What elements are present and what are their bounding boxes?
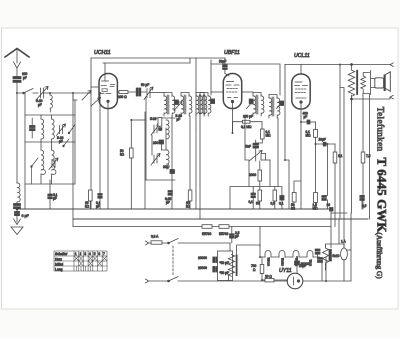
svg-text:10000: 10000 — [198, 266, 207, 270]
wire heater bus — [232, 227, 260, 248]
IF transformer T1 coil b — [172, 96, 175, 113]
wires IF bottoms — [164, 113, 204, 116]
wire speaker bottom — [352, 97, 391, 99]
wire bottom right — [350, 213, 352, 281]
resistor 0,1M UCL — [314, 130, 318, 138]
coil L2b — [52, 150, 56, 174]
svg-text:Schalter: Schalter — [55, 252, 68, 256]
tube UCL11 — [292, 74, 310, 109]
grid arrow UCH — [91, 98, 101, 107]
IF transformer T2 coil a — [181, 96, 184, 113]
IF transformer T5 core — [256, 95, 258, 114]
fuse oval — [341, 248, 348, 260]
osc trimmer — [151, 124, 160, 136]
wire antenna lead — [16, 68, 18, 76]
wire — [99, 93, 101, 196]
heater UCH11 — [265, 251, 271, 258]
svg-text:3: 3 — [84, 252, 86, 256]
osc coil b — [166, 150, 169, 169]
wire antenna to switch — [17, 83, 23, 94]
capacitor 0,5uF right — [360, 196, 365, 201]
switch link — [172, 246, 174, 276]
capacitor 200 — [159, 140, 164, 144]
resistor 1,5M — [314, 193, 318, 203]
wire filter out — [73, 93, 77, 100]
resistor 0,1M vertical — [261, 129, 265, 139]
switch S2 — [32, 158, 39, 167]
capacitor 0,05uF — [168, 191, 172, 196]
trimmer 5-30pF — [57, 124, 66, 136]
switch mains a — [169, 239, 179, 244]
IF transformer T2 coil b — [189, 96, 192, 113]
lamp UY11 — [287, 273, 303, 289]
wire — [178, 280, 303, 282]
IF transformer T5 coil a — [253, 96, 256, 113]
wire T4 — [200, 60, 211, 116]
svg-text:μF: μF — [96, 205, 100, 209]
resistor 0,2M horizontal — [243, 120, 251, 123]
svg-text:5-20: 5-20 — [150, 117, 157, 121]
svg-text:(Ausführung G): (Ausführung G) — [375, 233, 383, 280]
switch mains b — [169, 277, 179, 282]
resistor 20 — [265, 279, 274, 282]
trimmer C2 — [49, 158, 58, 170]
svg-text:UBF11: UBF11 — [224, 50, 240, 56]
svg-text:0,1: 0,1 — [279, 202, 284, 206]
svg-text:*50 μF: *50 μF — [220, 261, 230, 265]
svg-text:UCH11: UCH11 — [94, 50, 111, 56]
heater chain wire — [259, 245, 261, 257]
heater UY11 — [307, 251, 313, 258]
wire lamp right — [303, 257, 351, 281]
resistor osc — [158, 117, 162, 126]
svg-text:T 6445 GWK: T 6445 GWK — [374, 158, 388, 233]
IF transformer T4 coil a — [200, 96, 203, 113]
resistor 50k — [130, 148, 134, 158]
UCH11 stage box — [91, 58, 196, 130]
antenna — [5, 49, 29, 69]
wire 16uF column — [326, 144, 328, 209]
IF transformer T6 coil a — [269, 98, 272, 115]
wire screen line — [316, 143, 336, 145]
IF transformer T6 core — [272, 97, 274, 116]
output transformer secondary — [361, 76, 366, 89]
svg-text:UBF11: UBF11 — [281, 257, 285, 266]
svg-text:20μF: 20μF — [299, 264, 306, 268]
IF transformer T1 coil a — [164, 96, 167, 113]
heater chain connections — [260, 256, 320, 258]
electrolytic cap power — [315, 249, 320, 254]
wires UCL verticals — [335, 144, 362, 219]
wire cathode to bus — [300, 122, 302, 209]
svg-text:pF: pF — [38, 103, 42, 107]
output transformer core — [356, 70, 358, 95]
capacitor mains b — [213, 267, 218, 273]
oscillator coil T3 core — [199, 95, 201, 114]
svg-text:200: 200 — [163, 165, 169, 169]
resistor urdox zigzag — [323, 247, 329, 265]
svg-text:100 Ω: 100 Ω — [118, 95, 127, 99]
svg-text:UCH11: UCH11 — [267, 257, 271, 266]
wire speaker leads — [370, 73, 375, 94]
node bus end — [330, 208, 334, 212]
wire osc verticals — [162, 116, 173, 209]
svg-text:kΩ: kΩ — [120, 153, 125, 157]
svg-text:pF: pF — [177, 118, 181, 122]
wire coupling — [224, 58, 226, 74]
wire B+ bus — [73, 218, 368, 220]
tube UCH11 — [99, 63, 117, 109]
svg-text:0,2 MΩ: 0,2 MΩ — [241, 125, 252, 129]
wires UBF bottom — [253, 118, 282, 209]
resistor 50k UCL — [292, 193, 296, 203]
capacitor 0,1uF left — [98, 194, 102, 199]
choke winding — [228, 255, 234, 277]
IF transformer T2 core — [184, 95, 186, 114]
wire mains top — [149, 242, 169, 244]
ground — [11, 216, 23, 235]
coil L1b — [52, 119, 55, 139]
svg-text:20 Ω: 20 Ω — [265, 275, 272, 279]
wire bus drop — [331, 209, 347, 248]
trimmer arrow T6 — [277, 102, 283, 109]
switch table — [54, 251, 107, 271]
svg-text:16: 16 — [327, 203, 331, 207]
svg-text:6 μF: 6 μF — [22, 214, 30, 218]
wire UBF cathode down — [232, 109, 234, 134]
svg-text:4: 4 — [89, 252, 91, 256]
svg-text:50: 50 — [256, 202, 260, 206]
capacitor 400pF — [307, 120, 311, 125]
wires IF tops — [164, 93, 204, 97]
svg-text:pF: pF — [304, 115, 308, 119]
wire plate UBF — [243, 91, 254, 93]
svg-text:Lang: Lang — [55, 267, 63, 271]
capacitor 0,1uF filter — [48, 194, 52, 199]
oscillator coil T3 a — [196, 96, 199, 113]
wire right column verticals — [335, 65, 370, 249]
capacitor 200 b — [170, 170, 175, 174]
capacitor 100pF — [13, 77, 21, 83]
band filter box wires — [24, 93, 26, 209]
wires UBF lower — [233, 122, 263, 161]
capacitor T6 — [280, 101, 284, 106]
UBF11 stage box — [211, 64, 280, 95]
capacitor 50pF coupling — [223, 65, 228, 70]
wire transformer — [352, 65, 370, 100]
svg-text:200: 200 — [153, 141, 159, 145]
wire to T1 — [150, 92, 164, 94]
svg-text:Mittel: Mittel — [55, 262, 63, 266]
resistor 15k left — [89, 190, 93, 201]
resistor E5740 — [219, 225, 229, 229]
wire T5 — [253, 93, 261, 117]
osc coil a — [166, 120, 169, 139]
capacitor to ground — [14, 204, 21, 209]
svg-text:Kurz: Kurz — [55, 257, 62, 261]
capacitor 0,1uF UBF — [251, 193, 255, 198]
svg-text:kΩ: kΩ — [291, 207, 296, 211]
output transformer primary — [348, 70, 354, 96]
svg-text:2: 2 — [80, 252, 82, 256]
coil L2a — [41, 150, 45, 174]
capacitor 50pF — [136, 88, 141, 96]
wires mid verticals — [145, 112, 200, 219]
svg-text:Telefunken: Telefunken — [375, 107, 386, 152]
coil L-gnd — [16, 93, 18, 183]
wire — [33, 92, 38, 94]
svg-text:UY11: UY11 — [279, 268, 292, 274]
wire urdox — [318, 244, 344, 270]
speaker — [375, 72, 391, 92]
trimmer arrow T5 — [247, 102, 253, 109]
heater UBF11 — [279, 251, 285, 258]
wire tube top — [225, 74, 229, 77]
svg-text:5nF: 5nF — [246, 145, 252, 149]
trimmer C osc — [144, 87, 153, 100]
wire UCL cathode down — [300, 109, 302, 122]
trimmer capacitor 5-20pF — [36, 87, 48, 101]
coil L-ant — [50, 95, 52, 108]
capacitor T5 — [249, 99, 253, 104]
svg-text:E5780: E5780 — [202, 232, 211, 236]
tube UBF11 — [223, 74, 241, 109]
svg-text:E5740: E5740 — [219, 232, 228, 236]
svg-text:*50 μF: *50 μF — [220, 271, 230, 275]
capacitor small — [280, 196, 284, 201]
wire — [44, 92, 51, 94]
capacitor 16uF — [322, 196, 327, 201]
resistor 5k — [258, 190, 262, 201]
resistor E5780 — [202, 225, 212, 229]
svg-text:μF: μF — [235, 235, 239, 239]
svg-text:pF: pF — [59, 139, 63, 143]
svg-text:6: 6 — [98, 252, 100, 256]
fuse 0,8A — [151, 241, 162, 244]
wire volume tap — [245, 118, 249, 187]
oscillator sub-circuit box — [145, 98, 147, 180]
wire to UCH box — [50, 92, 91, 94]
resistor 1,1 vertical — [333, 152, 337, 163]
wire main ground bus — [17, 208, 331, 210]
capacitor T1 — [175, 100, 179, 105]
svg-text:MΩ: MΩ — [313, 207, 319, 211]
svg-text:μF: μF — [53, 197, 57, 201]
wire — [128, 91, 146, 93]
svg-text:MΩ: MΩ — [306, 134, 312, 138]
choke core — [236, 255, 238, 277]
svg-text:5: 5 — [94, 252, 96, 256]
trimmer arrow at grid — [82, 91, 91, 101]
svg-text:MΩ: MΩ — [266, 134, 272, 138]
wire — [130, 120, 132, 209]
wire tube cathode down — [107, 109, 109, 210]
coil L1a — [41, 119, 44, 139]
heater UCL11 — [293, 251, 299, 258]
resistor 100ohm — [119, 91, 128, 94]
svg-text:100 pF: 100 pF — [243, 115, 253, 119]
resistor 15k mid — [188, 190, 192, 201]
wire third bus — [73, 226, 331, 228]
IF transformer T5 coil b — [261, 96, 264, 113]
svg-text:2000: 2000 — [249, 173, 256, 177]
wire lamp feed — [296, 265, 298, 273]
IF transformer T6 coil b — [277, 98, 280, 115]
capacitor 25uF — [318, 258, 323, 263]
capacitor 5nF — [253, 143, 259, 148]
IF transformer T4 coil b — [208, 96, 211, 113]
heater labels — [267, 257, 313, 266]
capacitor mains a — [213, 257, 218, 263]
svg-text:kΩ: kΩ — [85, 205, 90, 209]
wire UCL top — [285, 64, 390, 66]
resistor 7,5 vertical — [361, 152, 365, 163]
svg-text:5x10: 5x10 — [333, 254, 340, 258]
mains terminal bottom — [146, 279, 149, 283]
capacitor input filter — [30, 118, 36, 138]
svg-text:pF: pF — [23, 76, 27, 80]
svg-text:10μF: 10μF — [319, 138, 326, 142]
svg-text:UCL11: UCL11 — [294, 53, 310, 59]
svg-text:1: 1 — [75, 252, 77, 256]
arrow osc core — [174, 102, 182, 111]
svg-text:10000: 10000 — [198, 256, 207, 260]
wire T6 — [269, 95, 277, 119]
switch S3 — [69, 125, 75, 134]
wire plate right — [118, 91, 120, 93]
svg-text:7,5: 7,5 — [366, 154, 371, 158]
oscillator coil T3 b — [204, 96, 207, 113]
wire grid line — [301, 121, 316, 123]
capacitor 10uF — [323, 142, 327, 147]
resistor 0,3M — [273, 190, 277, 201]
resistor 700 — [260, 265, 264, 274]
potentiometer volume — [249, 151, 266, 162]
wire grid UBF — [211, 91, 223, 93]
svg-text:0,8 A: 0,8 A — [151, 235, 159, 239]
capacitor lamp — [295, 261, 300, 265]
wire mains bottom — [149, 280, 169, 282]
wire branch 50k — [294, 181, 301, 209]
wire — [178, 242, 230, 244]
resistor 2000 — [258, 170, 262, 181]
svg-text:7: 7 — [103, 252, 105, 256]
svg-text:μF: μF — [166, 201, 170, 205]
capacitor T4 — [211, 99, 215, 104]
switch S1 — [24, 89, 34, 94]
svg-text:0,1: 0,1 — [249, 200, 254, 204]
IF transformer T1 core — [167, 95, 169, 114]
wire tube grid left — [91, 86, 99, 88]
osc trimmer 2 — [151, 154, 160, 166]
svg-text:50 pF: 50 pF — [141, 83, 149, 87]
switch S4 — [64, 139, 70, 146]
mains terminal top — [146, 241, 149, 245]
electrolytic can 2x50uF — [218, 251, 233, 281]
wire choke taps — [229, 243, 261, 281]
IF transformer T4 core — [203, 95, 205, 114]
node main bus left — [16, 208, 18, 210]
capacitor 2,5uF — [230, 234, 235, 238]
speaker terminal hooks — [390, 95, 393, 99]
capacitor 6uF — [15, 212, 20, 216]
tap bar — [329, 250, 331, 262]
